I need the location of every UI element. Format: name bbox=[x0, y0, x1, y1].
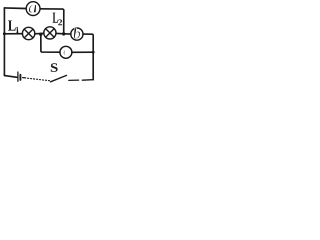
label L2 bbox=[53, 13, 63, 26]
wire node A down and right to meter c bbox=[41, 34, 60, 52]
wire top horizontal right segment with corner down to node B bbox=[41, 9, 64, 34]
label S switch bbox=[51, 63, 58, 72]
lamp L1 bbox=[22, 27, 34, 39]
node B junction between L2 and meter b bbox=[62, 32, 65, 35]
wire short dash after battery bbox=[23, 77, 26, 79]
wire meter c to right edge bbox=[72, 51, 93, 53]
wire top horizontal left segment bbox=[4, 7, 25, 10]
wire dash switch to right 1 bbox=[69, 79, 79, 81]
wire dotted battery to switch pivot bbox=[28, 78, 50, 81]
wire L1 to L2 bbox=[35, 32, 44, 35]
battery short plate bbox=[19, 75, 21, 80]
node junction on right vertical bbox=[92, 51, 95, 54]
switch S blade bbox=[51, 75, 67, 81]
meter b bbox=[71, 28, 83, 40]
wire dash switch to right 2 bbox=[82, 79, 93, 82]
ammeter a bbox=[26, 2, 40, 16]
wire left vertical bbox=[3, 8, 5, 76]
wire L2 to meter b bbox=[56, 32, 71, 35]
wire left node to lamp L1 bbox=[4, 33, 22, 35]
node junction on left vertical bbox=[3, 32, 6, 35]
label b inside meter b bbox=[74, 28, 81, 39]
lamp L2 bbox=[44, 27, 56, 39]
label L1 bbox=[8, 21, 18, 34]
label c inside meter c bbox=[63, 49, 69, 55]
wire meter b to right edge with corner down bbox=[83, 34, 93, 80]
meter c bbox=[60, 46, 72, 58]
label a inside ammeter bbox=[29, 5, 37, 13]
battery long plate bbox=[17, 72, 19, 81]
wire bottom-left corner to battery bbox=[4, 75, 17, 78]
node A junction between L1 and L2 bbox=[39, 33, 42, 36]
